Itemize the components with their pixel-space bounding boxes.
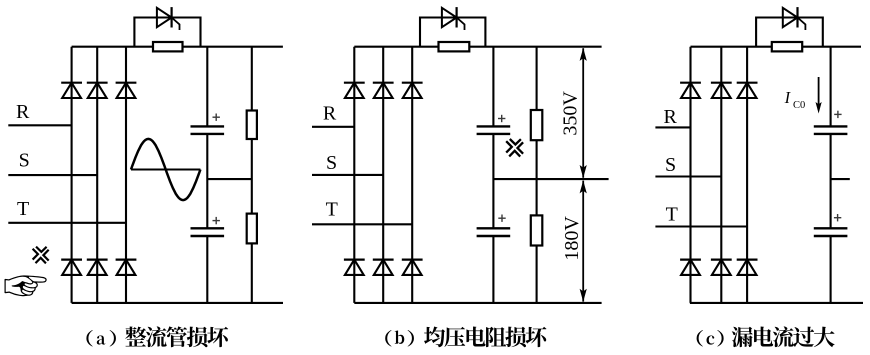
annotation: sine waveform (panel a) [131,139,200,200]
svg-text:180V: 180V [561,216,583,261]
wire: S phase line (panel c) [655,175,721,177]
diode lower arm 3 (panel b) [402,260,423,275]
diode upper arm 2 (panel b) [373,83,394,98]
plus C2 (panel c) [834,214,841,221]
wire: cap column middle (panel a) [206,134,208,228]
diode lower arm 2 (panel c) [711,260,732,275]
diode upper arm 2 (panel a) [87,83,108,98]
dimension line 350V section (panel b) [580,48,587,178]
diode upper arm 2 (panel c) [711,83,732,98]
wire: cap column middle (panel c) [830,134,832,228]
wire: S phase line (panel a) [8,174,97,176]
wire: S phase line (panel b) [312,174,383,176]
svg-text:T: T [666,203,678,225]
annotation: reference mark (panel a) [33,247,49,264]
wire: cap column upper (panel c) [830,47,832,127]
diode upper arm 3 (panel a) [116,83,137,98]
plus C1 (panel a) [213,114,220,121]
dimension line 180V section (panel b) [580,180,587,301]
annotation: leakage current arrow (panel c) [816,77,822,114]
wire: midpoint link extended (panel b) [493,178,608,180]
capacitor C1 (panel c) [814,126,848,133]
wire: bridge leg 3 (panel b) [411,47,413,303]
plus C1 (panel b) [498,115,505,122]
caption (b) equalizing resistor damaged [385,327,546,348]
wire: cap column upper (panel a) [206,47,208,127]
wire: bottom DC bus (panel a) [72,302,283,304]
svg-text:R: R [664,106,678,128]
annotation: reference mark (panel b) [506,139,523,157]
capacitor C2 (panel a) [191,228,225,236]
wire: thyristor branch (panel a) [134,18,200,47]
wire: bottom DC bus (panel b) [354,302,601,304]
wire: top DC bus (panel b) [354,46,601,48]
wire: thyristor branch (panel c) [756,18,823,47]
diode lower arm 3 (panel c) [737,260,758,275]
wire: R phase line (panel a) [8,124,71,126]
diode lower arm 1 (panel c) [680,260,701,275]
resistor R0 charging (panel a) [153,42,183,51]
plus C2 (panel b) [498,215,505,222]
wire: top DC bus (panel c) [691,46,862,48]
wire: bridge leg 3 (panel a) [125,47,127,303]
resistor R0 charging (panel c) [772,42,802,51]
capacitor C1 (panel b) [477,126,511,133]
diode lower arm 2 (panel a) [87,260,108,275]
svg-text:S: S [19,150,30,172]
plus C2 (panel a) [213,217,220,224]
wire: bridge leg 1 (panel a) [71,47,73,303]
wire: resistor column middle (panel b) [536,140,538,215]
diode upper arm 3 (panel c) [737,83,758,98]
wire: T phase line (panel c) [655,225,747,227]
wire: resistor column lower (panel a) [251,243,253,303]
thyristor VT (panel a) [157,7,180,30]
resistor R0 charging (panel b) [439,42,470,51]
diode lower arm 3 (panel a) [116,260,137,275]
wire: midpoint link (panel a) [207,178,252,180]
wire: cap column lower (panel b) [492,236,494,303]
diode upper arm 3 (panel b) [402,83,423,98]
diode lower arm 1 (panel b) [344,260,365,275]
wire: bridge leg 3 (panel c) [746,47,748,303]
thyristor VT (panel c) [783,7,806,30]
wire: bridge leg 1 (panel b) [353,47,355,303]
wire: cap column lower (panel a) [206,236,208,303]
svg-text:C0: C0 [793,100,805,111]
wire: midpoint stub (panel c) [831,178,850,180]
thyristor VT (panel b) [442,7,465,30]
capacitor C2 (panel b) [477,228,511,236]
wire: bridge leg 2 (panel b) [382,47,384,303]
svg-text:R: R [323,103,337,125]
resistor R1 equalizing (panel b) [531,110,543,140]
label leakage current I_C0 (panel c) [784,88,806,111]
diode upper arm 1 (panel a) [61,83,82,98]
svg-text:R: R [16,101,30,123]
resistor R2 equalizing (panel a) [247,214,257,244]
wire: T phase line (panel a) [8,222,126,224]
wire: R phase line (panel c) [655,126,690,128]
wire: R phase line (panel b) [312,126,354,128]
wire: T phase line (panel b) [312,223,412,225]
capacitor C2 (panel c) [814,228,848,236]
svg-text:I: I [784,88,792,107]
wire: bridge leg 2 (panel c) [720,47,722,303]
wire: resistor column upper (panel a) [251,47,253,111]
caption (c) leakage current too large [697,326,835,347]
wire: thyristor branch (panel b) [420,18,485,47]
svg-text:T: T [17,198,29,220]
svg-text:S: S [665,154,676,176]
wire: resistor column middle (panel a) [251,139,253,214]
caption (a) rectifier diode damaged [86,326,228,347]
svg-text:S: S [326,152,337,174]
wire: bridge leg 2 (panel a) [96,47,98,303]
resistor R2 equalizing (panel b) [531,215,543,245]
wire: resistor column lower (panel b) [536,246,538,303]
resistor R1 equalizing (panel a) [247,111,257,140]
annotation: pointing hand (panel a) [4,275,46,296]
wire: top DC bus (panel a) [72,46,283,48]
wire: cap column upper (panel b) [492,47,494,127]
svg-text:350V: 350V [560,91,582,136]
diode upper arm 1 (panel b) [344,83,365,98]
plus C1 (panel c) [834,111,841,118]
wire: cap column middle (panel b) [492,134,494,228]
diode upper arm 1 (panel c) [680,83,701,98]
svg-text:T: T [326,199,338,221]
wire: bottom DC bus (panel c) [690,302,863,304]
diode lower arm 1 (panel a) [61,260,82,275]
wire: bridge leg 1 (panel c) [689,47,691,303]
capacitor C1 (panel a) [191,126,225,133]
wire: resistor column upper (panel b) [536,47,538,110]
wire: cap column lower (panel c) [830,236,832,303]
diode lower arm 2 (panel b) [373,260,394,275]
